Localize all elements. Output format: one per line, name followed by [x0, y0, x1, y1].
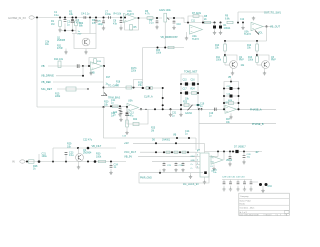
wire ladder frame — [224, 82, 239, 110]
svg-text:VB_MIDBOOST: VB_MIDBOOST — [161, 36, 179, 39]
svg-text:4: 4 — [197, 160, 198, 162]
svg-text:1M: 1M — [51, 23, 54, 26]
node junction x149 y88 — [149, 87, 151, 89]
capacitor C23 stub — [65, 161, 67, 163]
svg-text:Date: 2015-03-02 11:08: Date: 2015-03-02 11:08 — [240, 213, 259, 216]
svg-text:C13: C13 — [130, 113, 135, 115]
svg-text:2N5088: 2N5088 — [57, 40, 66, 42]
wire jog rectangle — [134, 80, 143, 88]
svg-text:R24: R24 — [191, 89, 196, 91]
node junction U2 out — [202, 22, 204, 24]
op-amp U4 feedback box — [89, 58, 104, 67]
node junction x96 — [95, 17, 97, 19]
wire y109.3 to U6 — [199, 108, 225, 110]
wire U3 feedback down — [266, 27, 268, 42]
op-amp U3A — [251, 22, 263, 30]
svg-text:47p: 47p — [113, 22, 118, 25]
svg-text:SIG_RET: SIG_RET — [41, 87, 53, 91]
ground stub x170 — [170, 108, 172, 110]
wire vertical bus from input node down — [36, 18, 38, 108]
resistor R9 series — [227, 21, 233, 24]
capacitor C31 bypass — [237, 180, 239, 183]
op-amp U1A — [124, 13, 137, 22]
svg-text:PNP: PNP — [271, 60, 276, 62]
component on loop top right — [204, 171, 207, 174]
node junction x90 — [89, 17, 91, 19]
wire U2 feedback box — [188, 16, 203, 23]
node U3 output — [266, 26, 268, 28]
capacitor C33 bypass — [250, 180, 252, 183]
svg-text:C-: C- — [191, 168, 193, 170]
IC U7 body — [200, 153, 209, 177]
svg-text:5: 5 — [197, 163, 198, 165]
ground below Q4 — [78, 161, 80, 165]
wire right from junction — [104, 87, 143, 89]
resistor R21 series — [112, 105, 118, 108]
resistor R1 to ground x60 — [59, 17, 61, 19]
svg-text:VREF: VREF — [226, 160, 233, 162]
resistor grid R25 — [184, 104, 189, 107]
ecap ladder C20 — [230, 87, 233, 90]
trimmer at bottom of bus — [101, 93, 107, 96]
capacitor C9 to ground — [156, 20, 158, 22]
svg-text:GUITAR_IN_XX: GUITAR_IN_XX — [8, 17, 26, 20]
op-amp U5A — [127, 103, 139, 111]
svg-text:100u: 100u — [42, 155, 48, 158]
svg-text:R25: R25 — [183, 102, 188, 104]
wire feedback y123.7 run — [199, 123, 276, 125]
pot arrow mid — [188, 105, 193, 111]
svg-text:C19: C19 — [200, 103, 205, 105]
node U1 output junction — [138, 17, 140, 19]
ground stub x174 — [173, 17, 175, 19]
wire top pin from +9V row — [196, 143, 205, 145]
svg-text:GND: GND — [191, 160, 196, 162]
svg-text:R12: R12 — [247, 45, 252, 47]
node pot wiper at y47 — [164, 47, 166, 49]
node U4 out — [103, 65, 105, 67]
svg-text:R10: R10 — [215, 45, 220, 47]
op-amp U4B — [91, 62, 103, 70]
node junction x88 bottom — [87, 161, 89, 163]
IC U7 left pins — [196, 151, 200, 153]
svg-text:0.1u: 0.1u — [54, 14, 59, 17]
svg-text:C22 47u: C22 47u — [83, 139, 93, 142]
ground U2 — [186, 32, 188, 37]
resistor R16 feedback — [94, 59, 97, 64]
wire feedback bottom run — [225, 40, 267, 42]
node junction x157 y47 — [157, 47, 159, 49]
ground below C24 — [109, 171, 112, 174]
node junction x177 y138 — [176, 137, 178, 139]
svg-text:IN: IN — [12, 160, 15, 164]
wire top rail y148 — [53, 147, 116, 149]
ground left of IC — [190, 173, 192, 175]
svg-text:C16: C16 — [191, 80, 196, 82]
wire rail y151.5 — [205, 151, 263, 153]
wire U6 output to label — [237, 108, 277, 110]
node junction diode D1 — [214, 22, 216, 24]
capacitor C8 to ground x121 — [120, 17, 122, 19]
connector P2 input jack — [20, 160, 25, 163]
svg-text:0.01u: 0.01u — [105, 13, 112, 16]
ecap grid D4 — [192, 82, 195, 85]
resistor R18 series net4 — [126, 86, 132, 89]
resistor R5 in feedback — [130, 25, 133, 31]
wire right chain drop — [256, 41, 258, 44]
svg-text:GAIN2: GAIN2 — [185, 112, 193, 115]
capacitor C30 bypass — [230, 180, 232, 183]
node junction x156 row — [155, 151, 157, 153]
svg-text:OUT_TO_SW1: OUT_TO_SW1 — [264, 11, 282, 14]
wire U5 output run — [139, 108, 200, 110]
svg-text:0.1u: 0.1u — [149, 23, 154, 25]
ecap node x39 — [38, 160, 41, 163]
svg-text:220k: 220k — [55, 95, 61, 98]
svg-text:6.8k: 6.8k — [225, 17, 230, 20]
node junction x103 y107 — [103, 106, 105, 108]
svg-text:+9V: +9V — [124, 141, 129, 145]
op-amp U2A below wire — [190, 25, 203, 34]
ecap grid D3 — [185, 82, 188, 85]
svg-text:TL072: TL072 — [192, 38, 199, 41]
capacitor C27 stub row — [182, 161, 184, 163]
svg-text:DC_JACK_9V: DC_JACK_9V — [183, 183, 199, 186]
svg-text:GAIN 100k: GAIN 100k — [159, 9, 171, 12]
ground below U6 — [230, 113, 232, 115]
diode D2 clipper — [220, 23, 222, 26]
ladder top tick — [230, 81, 232, 83]
svg-text:C29 C30 C31 C32 C33: C29 C30 C31 C32 C33 — [222, 176, 245, 178]
svg-text:VCC_FILT: VCC_FILT — [124, 150, 136, 154]
svg-text:TL072: TL072 — [244, 33, 251, 36]
svg-text:R14 10k: R14 10k — [54, 58, 64, 61]
svg-text:VB_OUT: VB_OUT — [270, 25, 280, 28]
svg-text:Guitar Pedal: Guitar Pedal — [240, 200, 252, 203]
capacitor C24 to ground — [110, 163, 112, 165]
resistor R24b series y47 — [168, 46, 174, 49]
title block frame — [239, 193, 289, 215]
wire collector loop right cell — [257, 55, 269, 61]
node junction x162 on wire — [162, 104, 164, 106]
resistor R19 series — [146, 87, 153, 90]
resistor R14 on VB line — [58, 61, 61, 68]
ecap C13 chain x127 — [126, 106, 128, 108]
wire main input run — [34, 17, 123, 19]
diode D7 series — [235, 150, 238, 153]
wire row VBIAS — [138, 155, 196, 157]
svg-text:1: 1 — [277, 214, 278, 216]
capacitor C6 to ground x103 — [103, 17, 105, 19]
svg-text:C17: C17 — [183, 89, 188, 91]
resistor R13 vertical — [256, 57, 259, 63]
ground above U3 — [252, 17, 255, 20]
wire collector loop left cell — [225, 55, 237, 61]
svg-text:2N3904: 2N3904 — [83, 152, 92, 155]
resistor R12 vertical — [256, 44, 259, 51]
wire row +9V — [133, 142, 196, 144]
ground below Q1 box left — [65, 49, 67, 51]
svg-text:PNP: PNP — [239, 60, 244, 62]
svg-text:PWR_GND: PWR_GND — [140, 178, 152, 180]
wire jog down to y22.5 — [181, 18, 184, 23]
resistor ladder R28b — [229, 102, 234, 105]
resistor R22 feedback — [133, 122, 139, 125]
wire Q2 emitter ground — [232, 68, 234, 71]
svg-text:1N4001: 1N4001 — [162, 139, 171, 141]
capacitor C10 series — [77, 64, 79, 68]
svg-text:-9V: -9V — [255, 152, 259, 154]
wire up to output rail — [237, 12, 239, 23]
node junction x188 — [187, 22, 189, 24]
node end of net4 — [87, 88, 88, 89]
svg-text:PHASE_B: PHASE_B — [252, 123, 264, 126]
node small x146 — [145, 109, 146, 110]
wire net 3 run — [53, 81, 104, 83]
svg-text:2: 2 — [197, 151, 198, 153]
node junction x225 y55 — [224, 54, 226, 56]
wire row4 y161 — [152, 160, 196, 162]
ecap ladder C21 — [230, 95, 233, 98]
node junction x27 — [26, 161, 28, 163]
svg-text:100p: 100p — [98, 23, 104, 26]
node junction x65 — [64, 17, 66, 19]
node junction x201 — [201, 108, 203, 110]
capacitor C5 vertical — [95, 19, 97, 20]
ground below C12 — [119, 118, 122, 121]
op-amp U8 rail splitter — [211, 156, 223, 164]
svg-text:R4 10k: R4 10k — [114, 13, 122, 16]
node junction x218 — [217, 151, 219, 153]
wire net 2 run — [56, 75, 83, 77]
transistor Q1 — [82, 38, 90, 46]
wire U1 output run — [139, 17, 163, 19]
svg-text:3: 3 — [197, 155, 198, 157]
wire U5 feedback loop — [127, 109, 148, 124]
wire grid stub top — [189, 70, 191, 74]
wire U4 output down bus — [103, 66, 105, 96]
svg-text:R25: R25 — [151, 128, 156, 130]
ladder rung y88.5 — [224, 88, 239, 90]
wire left chain drop — [224, 41, 226, 44]
svg-text:C31: C31 — [172, 113, 177, 115]
node junction x257 y55 — [256, 54, 258, 56]
capacitor C30 to ground x120 — [119, 108, 121, 109]
svg-text:1M: 1M — [151, 130, 154, 132]
potentiometer VR1 GAIN — [164, 13, 167, 22]
node junction x155 — [154, 108, 156, 110]
title block row lines — [239, 199, 289, 214]
wire up x53 — [52, 148, 54, 162]
wire main through U2 — [184, 22, 216, 24]
wire pot to U2 stage — [168, 17, 184, 19]
svg-text:C3b: C3b — [45, 42, 50, 44]
svg-text:C4 0.1u: C4 0.1u — [81, 13, 90, 16]
svg-text:100k: 100k — [156, 53, 162, 55]
node junction x189 y138 — [188, 137, 190, 139]
svg-text:100k: 100k — [96, 155, 102, 158]
wire x196 down to IC — [195, 138, 197, 150]
wire caps rail — [222, 179, 252, 181]
resistor row R33 — [174, 151, 178, 153]
node junction x199 — [198, 108, 200, 110]
node junction diode D2 — [220, 22, 222, 24]
node junction x111 — [110, 161, 112, 163]
resistor R8 series — [205, 21, 211, 24]
resistor R10 vertical — [224, 44, 227, 51]
node junction x142 y88 — [142, 87, 144, 89]
resistor grid R24 — [192, 92, 197, 95]
svg-text:VB_DRIVE: VB_DRIVE — [41, 74, 54, 78]
wire vertical x142 long — [142, 48, 144, 89]
potentiometer VR2 volume — [255, 31, 259, 35]
node junction row1 x176 — [175, 142, 177, 144]
ecap grid D5 — [185, 91, 188, 94]
title block bottom cell dividers — [264, 214, 285, 216]
grid rung y84 — [181, 83, 198, 85]
svg-text:Sheet: Sheet — [266, 213, 271, 216]
svg-text:R7 422k: R7 422k — [192, 12, 202, 15]
node junction x257 y41 — [256, 40, 258, 42]
svg-text:VB_FILT: VB_FILT — [92, 145, 102, 148]
resistor R6 series — [147, 17, 153, 20]
wire Q4 collector to rail — [78, 148, 80, 154]
svg-text:25V: 25V — [78, 33, 82, 35]
resistor row R34 — [182, 151, 186, 153]
wire output rail top — [238, 11, 272, 13]
node junction x120 — [119, 105, 121, 107]
wire big feedback box — [104, 107, 197, 138]
wire net VB run — [48, 65, 83, 67]
ground below R23 — [125, 131, 128, 134]
node junctions on rail — [64, 30, 66, 32]
diode D1 clipper — [214, 23, 216, 26]
node junction x238 — [237, 22, 239, 24]
svg-text:100k: 100k — [216, 60, 222, 62]
svg-text:VB_9V: VB_9V — [124, 154, 132, 158]
svg-text:100k: 100k — [248, 60, 254, 62]
svg-text:OSC: OSC — [191, 156, 196, 158]
svg-text:R23: R23 — [156, 50, 161, 52]
svg-text:6: 6 — [197, 166, 198, 168]
wire splitter apex up — [223, 151, 225, 153]
ecap C3 vertical x72.5 — [72, 17, 74, 19]
IC U7 bottom pin ground — [204, 177, 206, 181]
svg-text:Overdrive - Main: Overdrive - Main — [240, 208, 255, 210]
capacitor C28 stub — [229, 151, 231, 153]
svg-text:1N914: 1N914 — [224, 28, 231, 30]
wire net 4 run — [57, 88, 88, 90]
connector P1 input pad — [29, 16, 34, 19]
node junction x162 y88 — [162, 87, 164, 89]
svg-text:R17b: R17b — [131, 68, 137, 70]
resistor R28 series — [29, 160, 35, 163]
svg-text:Rev A: Rev A — [240, 202, 246, 205]
wire tone grid frame — [181, 74, 198, 109]
ground left of U4 — [90, 70, 92, 71]
ground below C9 — [155, 26, 158, 29]
wire down to splitter input — [217, 152, 219, 157]
wire row VCC — [140, 151, 196, 153]
capacitor C4 series in main wire — [84, 16, 86, 19]
resistor R7 feedback top — [193, 15, 199, 18]
resistor row R32 — [166, 151, 170, 153]
node U5 out — [140, 108, 142, 110]
wire y88 run — [143, 87, 163, 89]
wire loop around Q1 — [72, 34, 96, 49]
svg-text:TONE_NET: TONE_NET — [184, 71, 198, 74]
svg-text:4.7k: 4.7k — [145, 13, 150, 16]
wire base right cell — [257, 64, 262, 66]
node junction x83 y75.8 — [82, 75, 84, 77]
svg-text:470R: 470R — [57, 48, 63, 50]
capacitor C32 bypass — [244, 180, 246, 183]
svg-text:R27: R27 — [226, 119, 231, 121]
node tick on loop top — [159, 172, 161, 174]
capacitor C12 stub in box — [120, 107, 122, 111]
capacitor C29 bypass — [223, 180, 225, 183]
capacitor C26 stub row — [175, 161, 177, 163]
svg-text:PHASE_A: PHASE_A — [250, 109, 262, 112]
wire stub gnd x243 — [242, 22, 244, 24]
node ladder ends — [223, 108, 225, 110]
wire input bottom run — [25, 161, 126, 163]
wire x199 down — [198, 109, 200, 150]
wire x83 between nets — [82, 66, 84, 76]
wire rows join x196 — [195, 152, 197, 168]
resistor R2b at x76 — [75, 17, 77, 19]
ecap node x88 y148 — [87, 147, 90, 150]
transistor Q2 — [230, 61, 238, 69]
svg-text:R13: R13 — [248, 57, 253, 59]
node junction x78 y148 — [77, 147, 79, 149]
svg-text:VB: VB — [228, 77, 232, 79]
wire bottom rail y30.5 — [60, 30, 76, 32]
svg-text:R2b: R2b — [79, 23, 84, 25]
wire long y107 from bus — [37, 106, 104, 108]
svg-text:C15: C15 — [183, 80, 188, 82]
svg-text:D7 1N5817: D7 1N5817 — [234, 147, 246, 149]
node x233 — [232, 151, 234, 153]
ground stub x181b — [180, 109, 182, 113]
svg-text:C12: C12 — [113, 112, 118, 114]
ground below D1 — [213, 31, 216, 34]
wire pot wiper down — [164, 22, 166, 48]
wire U3 output — [263, 26, 271, 28]
svg-text:0.1u: 0.1u — [69, 154, 74, 157]
wire Q3 emitter ground — [264, 68, 266, 71]
wire U1 feedback loop — [125, 18, 139, 30]
svg-text:Company: Company — [240, 196, 249, 198]
node junction x89 y66 — [88, 65, 90, 67]
svg-text:220k: 220k — [131, 71, 137, 73]
svg-text:R18: R18 — [116, 82, 121, 84]
wire bottom loop rectangle — [139, 173, 209, 183]
capacitor C7 series in main wire — [109, 16, 111, 19]
ground below splitter — [213, 165, 215, 168]
IC U8 right pin stub — [209, 156, 213, 158]
wire stub up x39 — [38, 154, 40, 162]
node junction x181 y109 — [180, 108, 182, 110]
grid rung y105 — [181, 104, 198, 106]
ladder rung y103 — [224, 102, 239, 104]
ground below C34 — [262, 186, 264, 189]
title block small rev box — [285, 211, 290, 214]
wire vertical x162 — [162, 88, 164, 109]
node junction x133 y87 — [133, 87, 135, 89]
wire y107 continue to U5 — [104, 105, 128, 107]
svg-text:VB: VB — [41, 64, 45, 68]
